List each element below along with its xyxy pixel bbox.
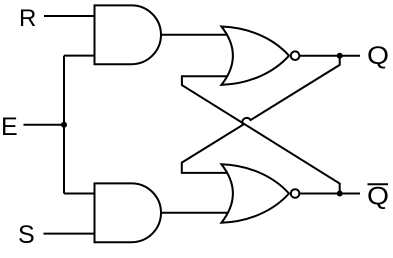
node Q-bar junction	[337, 191, 343, 197]
wire feedback Q to G2 upper input (with hop)	[182, 56, 340, 173]
wire E to node E	[24, 124, 65, 126]
wire E branch to A1 lower input	[64, 55, 95, 57]
node E junction	[61, 122, 67, 128]
svg-text:R: R	[19, 5, 36, 32]
and-gate A2 (bottom)	[95, 183, 162, 242]
wire A1 output to G1 top input	[161, 34, 228, 36]
node Q junction	[337, 53, 343, 59]
wire R to A1 input	[44, 15, 95, 17]
wire feedback Q-bar to G1 lower input	[182, 76, 340, 193]
svg-text:S: S	[18, 221, 35, 249]
wire G2 output to Q-bar	[300, 193, 361, 195]
and-gate A1 (top)	[95, 5, 161, 64]
label Q-bar	[367, 183, 389, 211]
svg-text:Q: Q	[367, 42, 389, 70]
nor-gate G2 (bottom)	[221, 164, 299, 222]
wire E vertical branch	[63, 56, 65, 194]
svg-text:E: E	[1, 113, 18, 141]
svg-text:Q: Q	[367, 183, 389, 211]
nor-gate G1 (top)	[221, 27, 299, 85]
wire G1 output to Q	[300, 55, 361, 57]
wire E branch to A2 upper input	[64, 193, 95, 195]
wire A2 output to G2 bottom input	[161, 212, 228, 214]
wire S to A2 input	[44, 233, 95, 235]
